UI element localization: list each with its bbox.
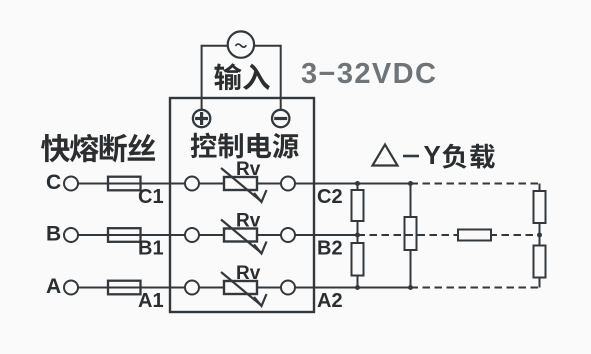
svg-text:B: B <box>46 223 61 246</box>
svg-text:B2: B2 <box>317 238 343 260</box>
svg-text:C1: C1 <box>138 186 164 208</box>
svg-text:Y: Y <box>424 140 441 170</box>
svg-text:A2: A2 <box>317 290 343 312</box>
svg-text:Rv: Rv <box>236 263 261 284</box>
svg-text:C2: C2 <box>317 186 343 208</box>
svg-text:C: C <box>46 171 61 194</box>
svg-text:Rv: Rv <box>236 159 261 180</box>
svg-text:A1: A1 <box>138 290 164 312</box>
svg-text:Rv: Rv <box>236 211 261 232</box>
svg-text:A: A <box>46 275 61 298</box>
svg-text:3−32VDC: 3−32VDC <box>301 58 437 90</box>
svg-text:B1: B1 <box>138 238 164 260</box>
